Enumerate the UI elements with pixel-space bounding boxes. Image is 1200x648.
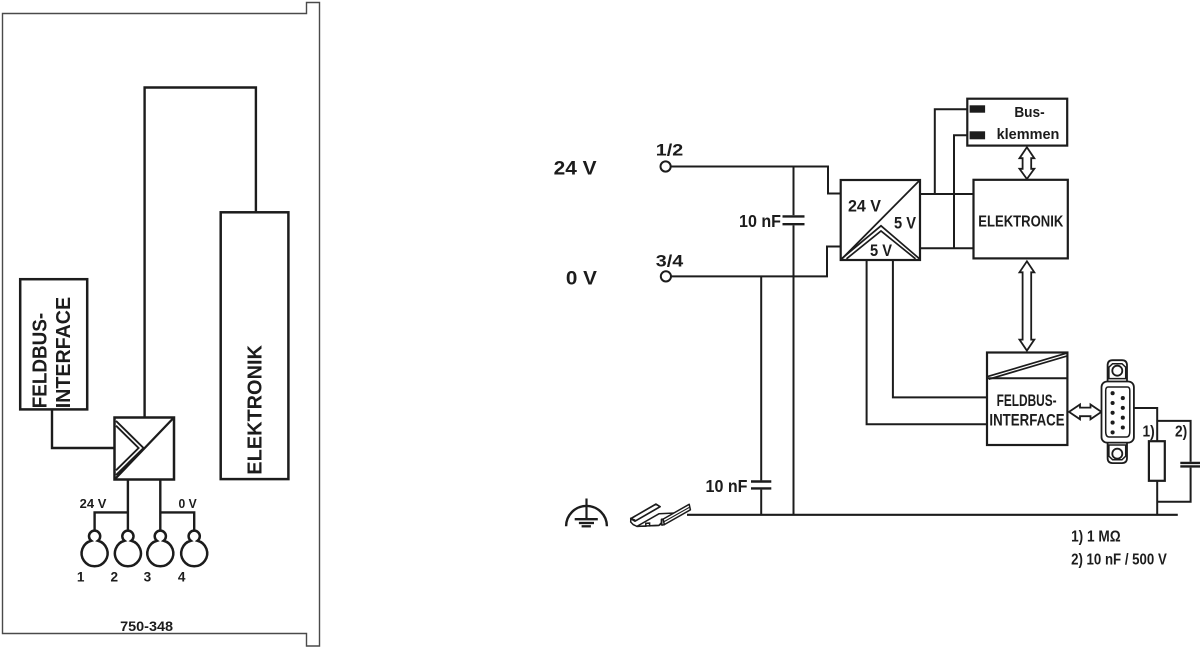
DIN rail (carrier rail) <box>631 504 691 526</box>
svg-text:2) 10 nF / 500 V: 2) 10 nF / 500 V <box>1071 551 1167 568</box>
wire 24V rail to terminal 1 (module) <box>95 512 128 531</box>
svg-text:750-348: 750-348 <box>120 618 173 634</box>
svg-text:FELDBUS-: FELDBUS- <box>997 391 1057 410</box>
functional earth symbol <box>566 499 607 527</box>
front hat profile <box>631 519 662 527</box>
ground bus wire <box>687 514 1178 516</box>
wire capacitor C3 bottom <box>1157 468 1190 502</box>
wire resistor to ground bus <box>1156 481 1158 515</box>
wire converter top to elektronik (module) <box>145 88 256 418</box>
svg-text:INTERFACE: INTERFACE <box>53 297 75 408</box>
svg-text:0 V: 0 V <box>566 267 597 289</box>
terminal contact 1/2 <box>661 161 671 171</box>
elektronik box (module) <box>221 212 289 479</box>
svg-text:24 V: 24 V <box>848 198 881 216</box>
wire converter to feldbus-interface (upper) <box>893 260 987 397</box>
wire connector to resistor <box>1134 408 1157 441</box>
svg-text:0 V: 0 V <box>179 497 198 511</box>
wire branch to busklemmen contact 1 <box>935 109 970 194</box>
svg-text:1: 1 <box>77 570 85 585</box>
svg-text:ELEKTRONIK: ELEKTRONIK <box>978 213 1063 230</box>
svg-text:2): 2) <box>1175 424 1187 441</box>
svg-text:10 nF: 10 nF <box>706 476 748 496</box>
svg-text:10 nF: 10 nF <box>739 211 781 231</box>
svg-text:ELEKTRONIK: ELEKTRONIK <box>245 345 267 475</box>
resistor R1 1 Mohm <box>1149 441 1165 481</box>
terminal 3 (CAGE CLAMP symbol) <box>147 531 173 567</box>
svg-text:1): 1) <box>1143 424 1155 441</box>
feldbus-interface box (schematic) <box>987 353 1067 446</box>
right bar end cap <box>662 519 665 525</box>
pins <box>1111 391 1125 434</box>
D-SUB 9 connector <box>1102 360 1134 463</box>
dc/dc converter U1 (schematic) <box>841 180 920 260</box>
data arrow elektronik-feldbusinterface <box>1020 261 1035 350</box>
busklemmen contact pad 2 <box>970 131 986 139</box>
svg-text:1) 1 MΩ: 1) 1 MΩ <box>1071 529 1121 546</box>
channel floor <box>637 513 681 527</box>
fieldbus interface box (module) <box>20 279 87 409</box>
wire 0V rail to terminal 4 (module) <box>160 512 194 531</box>
capacitor C3 plates <box>1180 462 1200 464</box>
wire fieldbus-interface to converter (module) <box>52 409 115 448</box>
dc/dc converter symbol (module) <box>115 418 175 480</box>
busklemmen box <box>967 99 1067 146</box>
terminal 1 (CAGE CLAMP symbol) <box>82 531 108 567</box>
wire converter 5V to elektronik (bottom) <box>920 247 974 249</box>
module outline 750-348 <box>3 3 320 647</box>
capacitor C1 10nF wire top <box>793 167 795 216</box>
svg-text:24 V: 24 V <box>80 497 107 511</box>
terminal contact 3/4 <box>661 271 671 281</box>
wire branch to capacitor C3 <box>1157 421 1190 462</box>
elektronik box (schematic) <box>974 180 1068 259</box>
terminal 2 (CAGE CLAMP symbol) <box>115 531 141 567</box>
svg-text:3/4: 3/4 <box>656 253 684 271</box>
busklemmen contact pad 1 <box>970 105 986 112</box>
capacitor C2 10nF wire top <box>760 276 762 480</box>
capacitor C1 plates <box>783 215 805 217</box>
svg-text:2: 2 <box>111 570 119 585</box>
wire converter to terminal 3 (module) <box>159 480 161 532</box>
wire converter to terminal 2 (module) <box>127 480 129 532</box>
svg-text:24 V: 24 V <box>554 158 597 180</box>
svg-text:klemmen: klemmen <box>997 127 1060 143</box>
terminal 4 (CAGE CLAMP symbol) <box>181 531 207 567</box>
svg-text:5 V: 5 V <box>870 242 892 260</box>
svg-text:3: 3 <box>144 570 152 585</box>
wire branch to busklemmen contact 2 <box>954 135 969 248</box>
D face <box>1106 387 1130 437</box>
data arrow busklemmen-elektronik <box>1020 147 1035 179</box>
wire 0V to converter <box>671 247 841 277</box>
capacitor C1 wire bottom to ground bus <box>793 225 795 514</box>
left flange bar <box>631 504 660 521</box>
connector body <box>1102 382 1134 443</box>
svg-text:Bus-: Bus- <box>1014 105 1044 121</box>
svg-text:4: 4 <box>178 570 186 585</box>
svg-text:1/2: 1/2 <box>656 142 683 160</box>
right flange bar <box>663 504 690 524</box>
bottom mounting ear <box>1108 442 1127 463</box>
data arrow feldbusinterface-connector <box>1069 405 1101 420</box>
wire converter to feldbus-interface (lower) <box>867 260 987 424</box>
capacitor C2 wire bottom to ground bus <box>760 490 762 515</box>
top mounting ear <box>1108 360 1127 382</box>
wire 24V to converter <box>671 167 841 194</box>
svg-text:5 V: 5 V <box>894 215 916 233</box>
capacitor C2 plates <box>751 480 771 482</box>
wire converter 5V to elektronik (top) <box>920 193 974 195</box>
svg-text:FELDBUS-: FELDBUS- <box>30 313 52 409</box>
svg-text:INTERFACE: INTERFACE <box>989 410 1064 429</box>
